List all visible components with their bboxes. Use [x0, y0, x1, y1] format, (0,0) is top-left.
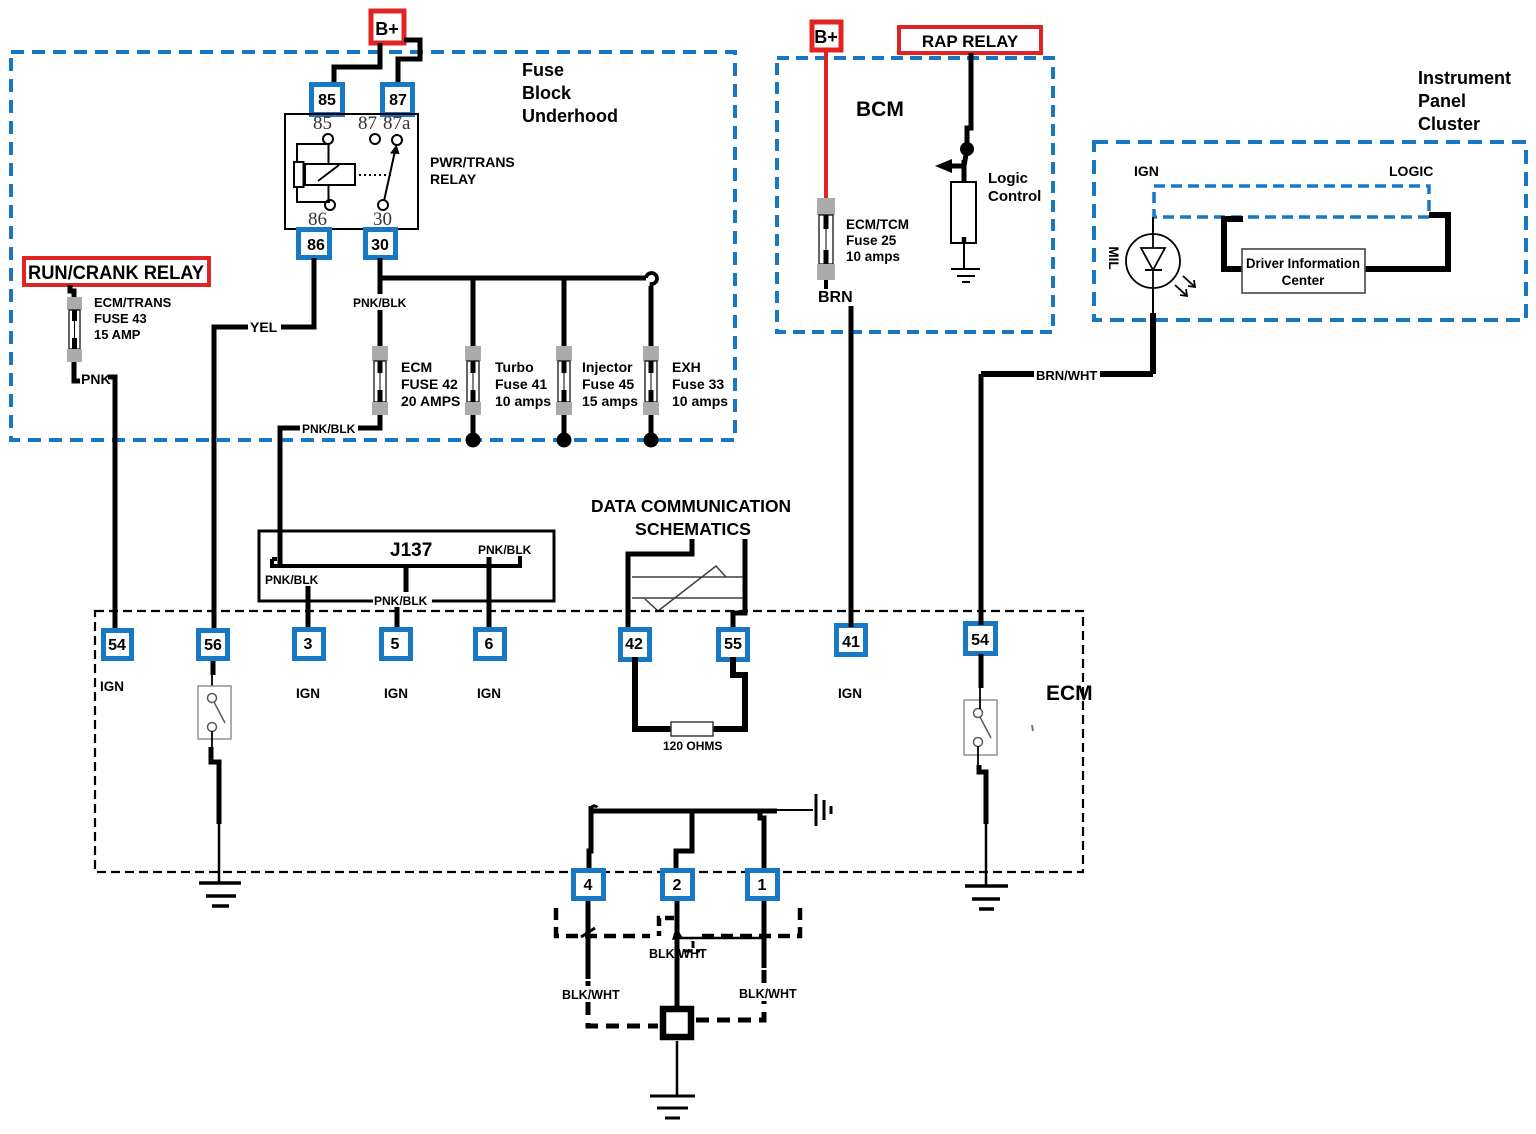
svg-text:120 OHMS: 120 OHMS — [663, 739, 722, 753]
wire EXH branch — [649, 286, 654, 346]
ground G4 (bottom) — [650, 1096, 695, 1118]
svg-text:5: 5 — [391, 636, 400, 653]
splice tick pin 4 — [581, 928, 595, 937]
svg-text:EXH: EXH — [672, 359, 701, 375]
label BRN/WHT — [1034, 366, 1100, 383]
svg-text:Block: Block — [522, 83, 572, 103]
junction dot BCM — [960, 142, 974, 156]
svg-text:LOGIC: LOGIC — [1389, 163, 1433, 179]
svg-text:SCHEMATICS: SCHEMATICS — [635, 519, 751, 539]
wire fuse43 to PNK — [74, 362, 80, 381]
small dash right of pin2 — [685, 941, 700, 951]
DIC thick wire left — [1224, 219, 1243, 269]
wire 85 circle to coil — [328, 144, 330, 201]
junction dot turbo — [466, 433, 481, 448]
svg-text:BCM: BCM — [856, 98, 904, 121]
wire turbo branch — [471, 278, 476, 346]
svg-text:B+: B+ — [375, 19, 399, 39]
wire B+ to 87 — [398, 40, 420, 83]
bus end curl — [646, 273, 657, 287]
svg-text:30: 30 — [371, 237, 389, 254]
fuse block underhood dashed border — [11, 52, 735, 440]
Driver Information Center box — [1242, 249, 1365, 293]
svg-text:10 amps: 10 amps — [672, 393, 728, 409]
svg-text:56: 56 — [204, 637, 222, 654]
svg-text:Fuse 33: Fuse 33 — [672, 376, 724, 392]
label BLK/WHT (right) — [737, 985, 797, 1001]
svg-text:Cluster: Cluster — [1418, 114, 1480, 134]
svg-text:15 AMP: 15 AMP — [94, 327, 141, 342]
svg-text:87: 87 — [358, 113, 377, 134]
svg-text:Center: Center — [1282, 273, 1326, 288]
IPC inner dashed box — [1154, 186, 1429, 217]
pin 54 (right) — [966, 624, 996, 654]
wire junction to ground — [676, 1041, 679, 1096]
pin 42 — [621, 630, 650, 660]
svg-text:PNK: PNK — [81, 371, 111, 387]
svg-text:Injector: Injector — [582, 359, 633, 375]
J137 internal bus — [272, 556, 520, 566]
label PNK/BLK (pin30 wire) — [352, 294, 409, 310]
relay coil left cap — [294, 162, 304, 187]
svg-text:Logic: Logic — [988, 170, 1028, 187]
wire J137 to pin 5 lower — [395, 607, 400, 631]
wire fuse42 to J137 — [280, 415, 380, 566]
svg-text:Fuse 45: Fuse 45 — [582, 376, 634, 392]
arrow logic control — [950, 149, 967, 166]
relay pin circles — [323, 134, 402, 210]
pin 85 — [312, 85, 343, 115]
wire J137 to pin 6 — [487, 557, 492, 631]
dashed wire pin 4 to junction — [588, 981, 658, 1026]
label ECM/TCM Fuse 25 10 amps — [846, 217, 909, 264]
LED diode symbol — [1152, 234, 1154, 248]
wire B+ to 85 — [334, 43, 380, 83]
pin 5 — [382, 630, 411, 659]
wire down to pin 54 right — [979, 374, 984, 625]
wire bus to pin 1 — [760, 810, 764, 870]
pin 87 — [383, 85, 413, 115]
bottom bus — [591, 809, 777, 814]
logic control resistor box — [951, 182, 976, 243]
wire RAP RELAY down — [967, 53, 971, 143]
dashed wire pin 1 to junction — [695, 970, 764, 1020]
ECM dashed border — [95, 611, 1083, 872]
svg-text:BRN: BRN — [818, 289, 853, 306]
label Instrument Panel Cluster — [1418, 68, 1511, 134]
svg-text:Fuse 25: Fuse 25 — [846, 233, 897, 248]
svg-text:ECM: ECM — [1046, 682, 1093, 705]
wire 30 bus — [380, 258, 646, 278]
svg-text:ECM/TCM: ECM/TCM — [846, 217, 909, 232]
label DATA COMMUNICATION SCHEMATICS — [591, 496, 791, 539]
wire fuse45 to dot — [562, 415, 567, 438]
wire pin 2 to junction square — [675, 901, 680, 1007]
svg-text:4: 4 — [584, 877, 593, 894]
label Injector Fuse 45 15 amps — [582, 359, 638, 409]
label PWR/TRANS RELAY — [430, 154, 515, 187]
svg-text:FUSE 43: FUSE 43 — [94, 311, 147, 326]
svg-text:BLK/WHT: BLK/WHT — [562, 988, 620, 1002]
relay coil — [305, 164, 355, 185]
wire data comm left stub to pin 42 — [628, 539, 692, 631]
wire J137 to pin 5 upper — [404, 566, 409, 593]
pin 6 — [476, 630, 505, 659]
pin 54 (left) — [104, 631, 132, 659]
stray tick — [1032, 725, 1033, 731]
wire 86 to YEL to pin 56 — [214, 258, 314, 629]
splice pack J137 box — [259, 531, 554, 601]
svg-text:PNK/BLK: PNK/BLK — [302, 422, 356, 436]
wire inner box to MIL — [1152, 217, 1154, 234]
svg-text:Driver Information: Driver Information — [1246, 256, 1360, 271]
wire RUN/CRANK to fuse 43 — [70, 285, 74, 297]
fuse F45 Injector — [556, 346, 572, 415]
relay coil wiring bracket — [297, 144, 330, 202]
svg-text:RUN/CRANK RELAY: RUN/CRANK RELAY — [28, 263, 204, 284]
arrow mark pin 2 — [672, 927, 683, 940]
svg-text:Instrument: Instrument — [1418, 68, 1511, 88]
pin 2 — [663, 871, 693, 899]
wire S2 to ground — [979, 765, 986, 824]
wire pin55 to resistor — [713, 657, 745, 729]
pin 86 — [299, 230, 330, 258]
fuse F42 ECM — [372, 346, 388, 415]
node B+ (left) — [371, 11, 404, 43]
ground G2 (under 54) — [965, 886, 1008, 909]
wire injector branch — [562, 278, 567, 346]
svg-text:MIL: MIL — [1106, 246, 1121, 269]
svg-text:FUSE 42: FUSE 42 — [401, 376, 458, 392]
wire fuse41 to dot — [471, 415, 476, 438]
svg-text:42: 42 — [625, 636, 643, 653]
pin 30 — [366, 230, 396, 258]
switch S2 under pin 54 right — [979, 654, 984, 688]
label Turbo Fuse 41 10 amps — [495, 359, 551, 409]
label ECM/TRANS FUSE 43 15 AMP — [94, 295, 172, 342]
svg-text:1: 1 — [758, 877, 767, 894]
label Fuse Block Underhood — [522, 60, 618, 126]
svg-text:Fuse: Fuse — [522, 60, 564, 80]
fuse F33 EXH — [643, 346, 659, 415]
ground G3 (BCM) — [951, 269, 980, 282]
svg-text:6: 6 — [485, 636, 494, 653]
IPC dashed border — [1094, 142, 1526, 320]
svg-text:Panel: Panel — [1418, 91, 1466, 111]
junction dot injector — [557, 433, 572, 448]
svg-text:30: 30 — [373, 209, 392, 230]
wire logic box to ground — [963, 244, 965, 269]
svg-text:54: 54 — [971, 632, 989, 649]
svg-text:85: 85 — [318, 92, 336, 109]
label PNK/BLK (J137 middle) — [373, 592, 432, 607]
svg-text:Underhood: Underhood — [522, 106, 618, 126]
svg-text:RAP RELAY: RAP RELAY — [922, 32, 1019, 51]
pin 3 — [295, 630, 324, 659]
BCM dashed border — [777, 58, 1053, 332]
ground G1 (under 56) — [199, 883, 241, 906]
wire bus to pin 2 — [676, 810, 692, 870]
svg-text:DATA COMMUNICATION: DATA COMMUNICATION — [591, 496, 791, 516]
svg-text:86: 86 — [308, 209, 327, 230]
wire dot to logic box — [962, 160, 967, 182]
wire pin 4 down — [586, 901, 591, 979]
thin link wire pin2 to pin1 — [679, 937, 762, 940]
junction block G — [663, 1009, 691, 1037]
svg-text:ECM/TRANS: ECM/TRANS — [94, 295, 172, 310]
wire S1 to ground — [211, 731, 213, 747]
node B+ (right) — [812, 22, 841, 50]
svg-text:2: 2 — [673, 877, 682, 894]
label EXH Fuse 33 10 amps — [672, 359, 728, 409]
label BLK/WHT (left) — [560, 986, 620, 1002]
thin wire to chassis ground — [777, 809, 813, 811]
label PNK/BLK (fuse42 bottom) — [300, 420, 358, 436]
svg-text:Turbo: Turbo — [495, 359, 534, 375]
svg-text:PNK/BLK: PNK/BLK — [374, 594, 428, 608]
svg-text:J137: J137 — [390, 540, 432, 561]
wire pin 1 down — [762, 901, 767, 968]
dashed harness bracket left — [556, 908, 650, 936]
junction dot EXH — [644, 433, 659, 448]
wire fuse33 to dot — [649, 415, 654, 438]
svg-text:10 amps: 10 amps — [495, 393, 551, 409]
svg-text:87: 87 — [389, 92, 407, 109]
pin 56 — [199, 631, 228, 659]
LED MIL circle — [1126, 234, 1180, 288]
wire fuse25 stub — [824, 280, 828, 289]
svg-text:IGN: IGN — [296, 686, 320, 701]
svg-text:ECM: ECM — [401, 359, 432, 375]
node RAP RELAY — [899, 27, 1041, 53]
wire bus to pin 4 — [589, 806, 591, 870]
svg-text:BLK/WHT: BLK/WHT — [649, 947, 707, 961]
svg-text:87a: 87a — [383, 113, 411, 134]
svg-text:20 AMPS: 20 AMPS — [401, 393, 460, 409]
chassis ground (sideways) — [816, 794, 831, 826]
pin 1 — [748, 871, 778, 899]
relay pin labels serif — [308, 113, 411, 230]
wire MIL down — [1152, 288, 1154, 313]
svg-text:54: 54 — [108, 637, 126, 654]
svg-text:RELAY: RELAY — [430, 171, 477, 187]
label ECM FUSE 42 20 AMPS — [401, 359, 460, 409]
svg-text:15 amps: 15 amps — [582, 393, 638, 409]
svg-text:PNK/BLK: PNK/BLK — [478, 543, 532, 557]
relay PWR/TRANS box — [285, 114, 418, 229]
svg-text:IGN: IGN — [838, 686, 862, 701]
svg-text:10 amps: 10 amps — [846, 249, 900, 264]
svg-text:85: 85 — [313, 113, 332, 134]
pin 41 — [837, 626, 866, 655]
dashed bracket middle piece — [659, 918, 674, 936]
svg-text:YEL: YEL — [250, 319, 278, 335]
wire 30 to fuse 42 — [378, 278, 383, 346]
dashed harness bracket right — [700, 908, 800, 936]
svg-text:Control: Control — [988, 188, 1041, 205]
wire PNK down to pin 54 — [108, 377, 115, 629]
label Logic Control — [988, 170, 1041, 205]
svg-text:IGN: IGN — [100, 679, 124, 694]
switch S1 under pin 56 — [211, 661, 216, 675]
resistor 120 OHMS — [671, 722, 713, 736]
pin 55 — [719, 630, 748, 660]
svg-text:Fuse 41: Fuse 41 — [495, 376, 547, 392]
svg-text:B+: B+ — [814, 27, 838, 47]
svg-text:IGN: IGN — [1134, 163, 1159, 179]
svg-text:IGN: IGN — [477, 686, 501, 701]
wire BRN/WHT horizontal — [981, 371, 1153, 377]
LED emission arrows — [1175, 276, 1195, 296]
svg-text:55: 55 — [724, 636, 742, 653]
wire J137 to pin 3 — [306, 586, 311, 631]
svg-text:PNK/BLK: PNK/BLK — [353, 296, 407, 310]
svg-text:PWR/TRANS: PWR/TRANS — [430, 154, 515, 170]
svg-text:86: 86 — [307, 237, 325, 254]
relay armature arrow — [384, 151, 395, 201]
twisted pair symbol — [632, 566, 743, 611]
wire BRN to pin 41 — [849, 306, 854, 627]
DIC thick wire right — [1365, 215, 1448, 269]
relay dotted actuator line — [359, 174, 393, 176]
fuse F43 ECM/TRANS — [67, 297, 82, 362]
wire pin42 to resistor — [635, 657, 671, 729]
svg-text:BRN/WHT: BRN/WHT — [1036, 368, 1097, 383]
fuse F41 Turbo — [465, 346, 481, 415]
wire data comm right to pin 55 — [733, 539, 745, 631]
svg-text:41: 41 — [842, 634, 860, 651]
svg-text:BLK/WHT: BLK/WHT — [739, 987, 797, 1001]
bus left curl — [591, 806, 597, 809]
fuse F25 ECM/TCM — [817, 198, 835, 280]
label YEL — [248, 317, 281, 335]
svg-text:PNK/BLK: PNK/BLK — [265, 573, 319, 587]
node RUN/CRANK RELAY — [24, 258, 209, 285]
svg-text:3: 3 — [304, 636, 313, 653]
svg-text:IGN: IGN — [384, 686, 408, 701]
pin 4 — [574, 871, 604, 899]
red wire B+ to fuse 25 — [824, 50, 828, 198]
